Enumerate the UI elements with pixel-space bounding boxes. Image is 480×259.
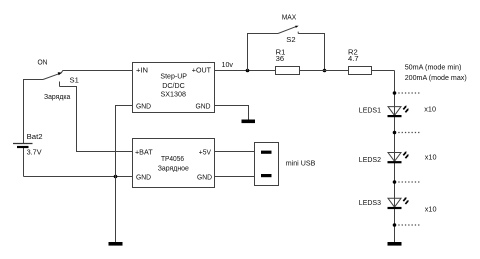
dashed tap line 3: [398, 181, 420, 183]
LED LEDS2: [388, 151, 409, 162]
svg-text:GND: GND: [136, 172, 151, 181]
wire R2 to LED column: [372, 70, 395, 72]
svg-text:+IN: +IN: [136, 65, 148, 74]
wire battery negative down to bottom rail: [23, 148, 25, 177]
wire TP4056 +5V to mini USB: [215, 151, 262, 153]
svg-text:+5V: +5V: [199, 147, 212, 156]
svg-text:Step-UP: Step-UP: [160, 72, 187, 81]
svg-text:200mA (mode max): 200mA (mode max): [405, 73, 467, 82]
ground (main): [109, 242, 123, 246]
wire S1 charge contact to TP4056 +BAT: [60, 87, 133, 152]
svg-text:LEDS2: LEDS2: [359, 155, 381, 164]
resistor R1: [276, 67, 300, 75]
dashed tap line 4: [398, 224, 420, 226]
IC U2 TP4056 charger: [133, 139, 215, 188]
junction LED tap 2: [393, 131, 397, 135]
resistor R2: [349, 67, 372, 75]
junction LED tap 1: [393, 91, 397, 95]
wire battery positive to S1 pivot: [24, 80, 44, 144]
svg-text:TP4056: TP4056: [161, 154, 184, 163]
svg-text:3.7V: 3.7V: [27, 147, 43, 156]
junction bottom rail / ground line: [114, 175, 118, 179]
svg-text:50mA (mode min): 50mA (mode min): [405, 63, 462, 72]
svg-text:DC/DC: DC/DC: [162, 81, 185, 90]
ground (SX1308 output): [242, 120, 256, 124]
svg-text:+BAT: +BAT: [135, 147, 153, 156]
wire S2 left riser: [248, 34, 279, 71]
svg-text:GND: GND: [136, 102, 151, 111]
switch S1: [43, 72, 62, 86]
dashed tap line 1: [398, 92, 420, 94]
ground (LED string): [388, 242, 402, 246]
wire bottom rail to TP4056 GND: [24, 176, 133, 178]
svg-text:LEDS1: LEDS1: [359, 105, 381, 114]
wire TP4056 GND to mini USB: [215, 176, 262, 178]
svg-text:4.7: 4.7: [348, 54, 359, 63]
junction rail / S2 right riser: [323, 69, 327, 73]
wire R1 to R2: [300, 70, 349, 72]
connector mini USB: [255, 143, 279, 186]
wire SX1308 GND right to ground: [215, 106, 249, 120]
svg-text:GND: GND: [196, 102, 211, 111]
svg-text:Bat2: Bat2: [27, 132, 43, 141]
wire +OUT to R1: [215, 70, 276, 72]
svg-text:+OUT: +OUT: [192, 65, 212, 74]
svg-text:SX1308: SX1308: [160, 90, 186, 99]
svg-text:Зарядка: Зарядка: [44, 92, 71, 101]
junction LED tap 4: [393, 223, 397, 227]
svg-text:36: 36: [276, 54, 284, 63]
LED LEDS3: [388, 197, 409, 208]
junction LED tap 3: [393, 180, 397, 184]
wire S1 top contact to SX1308 +IN: [61, 71, 133, 74]
svg-text:10v: 10v: [222, 60, 234, 69]
svg-text:ON: ON: [38, 57, 48, 66]
svg-text:x10: x10: [425, 153, 437, 162]
svg-text:x10: x10: [425, 204, 437, 213]
IC U1 SX1308 step-up converter: [133, 63, 215, 113]
svg-text:x10: x10: [424, 105, 436, 114]
svg-text:Зарядное: Зарядное: [158, 163, 189, 172]
svg-text:mini USB: mini USB: [286, 158, 316, 167]
svg-text:S1: S1: [70, 75, 79, 84]
battery Bat2: [13, 144, 33, 148]
svg-text:MAX: MAX: [282, 12, 297, 21]
switch S2: [278, 26, 299, 34]
wire LED string column: [394, 71, 396, 243]
dashed tap line 2: [398, 132, 420, 134]
svg-text:LEDS3: LEDS3: [359, 198, 381, 207]
wire S2 right riser: [298, 34, 324, 71]
svg-text:S2: S2: [286, 35, 295, 44]
svg-text:GND: GND: [197, 172, 212, 181]
LED LEDS1: [388, 106, 409, 117]
wire SX1308 GND left to main ground: [116, 106, 133, 243]
junction rail / S2 left riser: [246, 69, 250, 73]
